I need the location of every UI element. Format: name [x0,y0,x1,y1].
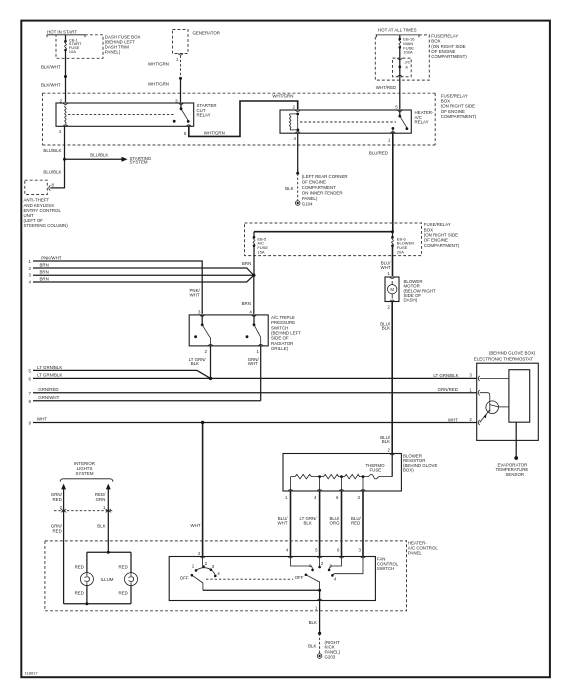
svg-text:RED: RED [119,564,128,569]
fan switch input connectors 4/5/6/3 [288,557,293,559]
svg-text:PNK/WHT: PNK/WHT [41,256,62,261]
svg-text:BLU/BLK: BLU/BLK [43,148,61,153]
svg-text:BLK: BLK [285,186,293,191]
fan switch right rotor wiring [291,557,313,569]
svg-text:WHT/GRN: WHT/GRN [272,93,293,98]
fan switch bus [203,589,320,591]
svg-text:M: M [390,287,394,292]
wire GRN/RED down to lamp return [63,511,65,604]
fuse EB-16 MAIN FUSE 100A [399,35,401,38]
svg-text:BLK: BLK [304,520,312,525]
svg-text:ORG: ORG [330,520,341,525]
svg-text:COMPARTMENT): COMPARTMENT) [441,114,477,119]
pressure switch left contacts [200,315,205,317]
wire BLU/ORG resistor pin 6 down [341,491,343,557]
svg-text:BRN: BRN [242,261,251,266]
svg-text:GRN/WHT: GRN/WHT [38,395,59,400]
svg-text:RED: RED [119,590,128,595]
svg-text:COMPARTMENT): COMPARTMENT) [431,54,467,59]
svg-text:ILLUM: ILLUM [101,577,114,582]
heater relay switch pins 5/1 [397,110,402,112]
svg-text:BLK: BLK [308,644,316,649]
anti-theft and keyless entry control unit (dashed box) [25,180,48,194]
junction BLU/BLK [63,158,66,161]
svg-text:PANEL): PANEL) [302,196,318,201]
wire BLU/RED resistor pin 3 down [362,491,364,557]
arrow up GRN/RED to interior lights [61,484,66,490]
svg-text:100A: 100A [403,50,413,55]
wire BLU/WHT resistor pin 1 down [290,491,292,557]
ground G203 [317,654,322,659]
svg-text:(LEFT REAR CORNER: (LEFT REAR CORNER [302,174,348,179]
svg-text:BLK: BLK [97,524,105,529]
wire BLK fan switch to ground [319,601,321,634]
dash fuse box (dashed enclosure) [56,35,103,59]
svg-text:OF ENGINE: OF ENGINE [302,179,326,184]
svg-text:G203: G203 [325,654,336,659]
svg-text:BLK: BLK [191,361,199,366]
junction connector J/C A (dashed box) [399,47,401,58]
svg-text:WHT/GRN: WHT/GRN [204,131,225,136]
starter cut relay coil pins 2/4 [63,103,68,105]
svg-text:WHT: WHT [191,523,201,528]
wire WHT/RED to heater relay pin 5 [399,77,401,109]
svg-text:RED: RED [351,520,360,525]
svg-text:PANEL): PANEL) [105,50,121,55]
wire BLU/BLK arrow to starting system [65,158,122,160]
wire BLU/WHT fuse EB-6 to blower motor [392,246,394,276]
circuit breaker CB-1 START FUSE 10A [65,35,67,40]
svg-text:15A: 15A [257,250,264,255]
svg-text:PANEL: PANEL [408,550,423,555]
svg-text:BRN: BRN [242,301,251,306]
svg-text:STEERING COLUMN): STEERING COLUMN) [24,223,69,228]
svg-text:(BEHIND GLOVE BOX): (BEHIND GLOVE BOX) [489,351,536,356]
fuse/relay box top (dashed enclosure) [375,35,429,80]
blower resistor pin 2 connector [390,454,395,456]
wire BRN junction to pressure switch pin 4 [253,275,255,314]
svg-text:OFF: OFF [180,576,189,581]
fan control switch box [169,557,375,601]
wire BLK heater relay pin 4 to ground [297,133,299,173]
heater relay coil [296,113,299,116]
junction on BLK/WHT wire [64,75,67,78]
wire WHT/GRN relay pin5 to heater relay pin 2 [189,101,298,136]
wire GRN/WHT switch pin 1 to wire 8 [260,346,262,401]
anti-theft pin 8 connector [49,185,51,190]
svg-text:GRN/RED: GRN/RED [438,387,458,392]
wire BLU/BLK to anti-theft unit pin 8 [50,159,64,188]
junction BRN wires [252,274,255,277]
svg-text:BLK: BLK [382,439,390,444]
fan switch left rotor [195,569,198,572]
fuse EB-5 A/C FUSE 15A [253,232,255,237]
svg-text:ELECTRONIC THERMOSTAT: ELECTRONIC THERMOSTAT [474,357,533,362]
starter cut relay box [56,103,194,126]
junction WHT/GRN [179,77,182,80]
svg-text:WHT/GRN: WHT/GRN [148,81,169,86]
svg-text:BOX): BOX) [403,468,414,473]
svg-text:RELAY: RELAY [197,113,211,118]
fuse EB-6 BLOWER FUSE 20A [392,232,394,237]
fan switch WHT input connector [200,557,205,559]
svg-text:BRN: BRN [40,270,49,275]
illumination lamp left [80,573,93,586]
svg-text:BLK/WHT: BLK/WHT [41,65,61,70]
wire BLU/BLK relay pin4 down [64,126,66,159]
svg-text:COMPARTMENT: COMPARTMENT [302,185,336,190]
svg-text:SENSOR: SENSOR [506,472,525,477]
svg-text:20A: 20A [397,250,404,255]
svg-text:WHT: WHT [190,293,200,298]
ground G104 [295,201,300,206]
fan switch output pin 1 [319,590,321,600]
svg-text:BLU/RED: BLU/RED [369,150,388,155]
wire LT GRN/BLK switch pin 2 to junction [210,346,212,379]
svg-text:RELAY: RELAY [415,120,429,125]
svg-text:COMPARTMENT): COMPARTMENT) [424,243,460,248]
illumination lamp feed rail [87,551,131,553]
resistor chain [291,474,393,478]
svg-text:FUSE: FUSE [370,468,382,473]
wire LT GRN/BLK resistor pin 4 down [319,491,321,557]
wire BLU/RED feed to fuses [254,231,393,233]
svg-text:WHT: WHT [278,520,288,525]
svg-text:SYSTEM: SYSTEM [75,471,93,476]
illumination lamp right [125,573,138,586]
wire to evaporator temperature sensor [515,422,517,457]
starter cut relay switch pins 3/5 [178,103,183,105]
heater relay pin 2 connector [295,110,300,112]
svg-text:ON INNER FENDER: ON INNER FENDER [302,190,343,195]
wire WHT/GRN junction to relay pin 3 [180,78,182,102]
svg-text:HOT IN START: HOT IN START [47,30,77,35]
mechanical link (dashed) [206,578,293,580]
svg-text:WHT: WHT [381,265,391,270]
svg-text:GENERATOR: GENERATOR [193,31,220,36]
svg-text:SWITCH: SWITCH [377,566,394,571]
wire WHT down to fan switch [202,423,204,557]
in-line connector (dashed) [54,510,113,512]
svg-text:GRN: GRN [96,497,106,502]
svg-text:BLK/WHT: BLK/WHT [41,83,61,88]
transistor Q (thermostat driver) [486,401,499,414]
blower resistor box [283,454,401,492]
svg-text:SYSTEM: SYSTEM [130,160,148,165]
resistor taps to pins 1/4/6/3 [291,477,364,491]
fuse/relay box lower (dashed enclosure) [245,223,422,256]
svg-text:RED: RED [53,497,62,502]
heater-A/C control panel (dashed enclosure) [45,541,407,611]
lamp return rail [87,586,131,604]
pressure switch right contacts [251,315,256,317]
arrow up RED/GRN to interior lights [106,484,111,490]
svg-text:BLU/BLK: BLU/BLK [43,170,61,175]
generator (dashed box) [173,30,189,54]
wire WHT/GRN generator to junction (dashed) [180,56,182,78]
svg-text:HOT AT ALL TIMES: HOT AT ALL TIMES [378,27,417,32]
svg-text:RED: RED [75,564,84,569]
svg-text:WHT/GRN: WHT/GRN [148,62,169,67]
svg-text:LT GRN/BLK: LT GRN/BLK [37,373,62,378]
junction WHT to fan switch [201,421,204,424]
svg-text:WHT: WHT [37,417,47,422]
svg-text:A: A [405,65,408,70]
svg-text:G104: G104 [302,201,313,206]
wire BLK/WHT fuse to relay pin 2 [65,50,67,102]
svg-text:BRN: BRN [40,263,49,268]
wire BLU/RED heater relay pin 1 down [392,133,394,232]
svg-text:BLK: BLK [309,620,317,625]
heater-A/C relay box [280,110,411,133]
generator pin 1 connector [178,54,183,56]
starter cut relay internal link (dashed) [68,113,175,115]
svg-text:LT GRN/BLK: LT GRN/BLK [37,365,62,370]
svg-text:BLU/BLK: BLU/BLK [90,153,108,158]
svg-text:DASH): DASH) [404,298,418,303]
svg-text:WHT: WHT [448,418,458,423]
svg-text:10A: 10A [69,49,76,54]
svg-text:OFF: OFF [295,575,304,580]
svg-text:WHT: WHT [248,361,258,366]
svg-text:RED: RED [53,528,62,533]
svg-text:LT GRN/BLK: LT GRN/BLK [433,373,458,378]
A/C triple pressure switch box [189,315,268,346]
svg-text:118917: 118917 [25,670,39,675]
svg-text:BRN: BRN [40,276,49,281]
wire BLK down to lamp feed [107,511,109,553]
svg-text:RED: RED [75,590,84,595]
svg-text:BLK: BLK [382,326,390,331]
blower motor [385,277,399,302]
svg-text:GRILLE): GRILLE) [271,346,289,351]
svg-text:WHT/RED: WHT/RED [376,85,397,90]
svg-text:GRN/RED: GRN/RED [38,387,58,392]
heater relay internal link (dashed) [300,121,396,123]
fuse/relay enclosure dashed band [43,92,436,94]
